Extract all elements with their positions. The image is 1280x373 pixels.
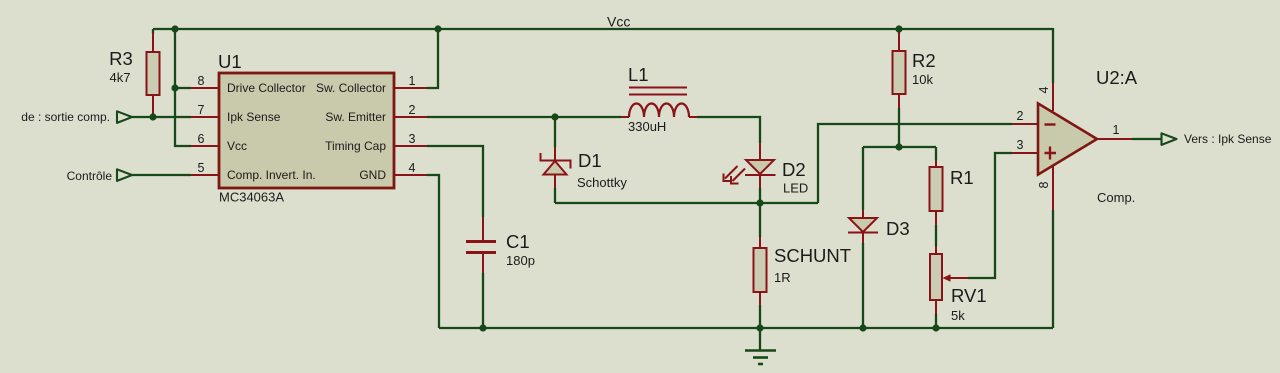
U1 pin 7 stub [191, 103, 219, 117]
svg-text:5: 5 [198, 161, 205, 175]
svg-text:3: 3 [409, 132, 416, 146]
diode D3 [848, 147, 910, 328]
junction R2 bottom node [895, 143, 902, 150]
svg-text:Timing Cap: Timing Cap [325, 139, 386, 153]
svg-text:1: 1 [1113, 123, 1120, 137]
U1 pin 1 stub [394, 74, 427, 88]
U1 pin 5 stub [191, 161, 219, 175]
svg-text:Vers : Ipk Sense: Vers : Ipk Sense [1184, 132, 1272, 146]
wire RV1 wiper to op-amp pin 3 [968, 153, 1012, 278]
junction RV1 / bottom rail [932, 324, 939, 331]
svg-text:Sw. Emitter: Sw. Emitter [325, 110, 386, 124]
wire terminal to pin 7 [132, 116, 191, 118]
svg-text:2: 2 [1017, 109, 1024, 123]
node Vcc label [607, 14, 630, 30]
svg-text:10k: 10k [912, 72, 933, 87]
svg-text:2: 2 [409, 103, 416, 117]
potentiometer RV1 [930, 246, 987, 328]
svg-text:1: 1 [409, 74, 416, 88]
svg-text:Comp.: Comp. [1097, 190, 1135, 205]
svg-text:4: 4 [409, 161, 416, 175]
wire pin2 Sw. Emitter to L1 [427, 116, 621, 118]
wire output to terminal [1132, 138, 1162, 140]
svg-text:330uH: 330uH [628, 119, 666, 134]
op-amp U2:A [1038, 67, 1138, 205]
resistor R3 [109, 29, 159, 117]
wire bottom rail [439, 327, 1053, 329]
svg-text:D1: D1 [578, 150, 602, 171]
svg-text:8: 8 [1037, 181, 1051, 188]
U1 pin 2 stub [394, 103, 427, 117]
U2 pin 8 stub [1037, 165, 1053, 210]
svg-text:C1: C1 [506, 231, 530, 252]
IC U1 MC34063A body [218, 51, 394, 205]
svg-text:Contrôle: Contrôle [67, 169, 113, 183]
U1 pin 6 stub [191, 132, 219, 146]
svg-text:GND: GND [359, 168, 386, 182]
U2 pin 3 stub [1012, 138, 1038, 153]
junction C1 / bottom rail [479, 324, 486, 331]
junction pin1 riser / top rail [434, 25, 441, 32]
U1 pin 4 stub [394, 161, 427, 175]
resistor SCHUNT [754, 203, 852, 328]
svg-text:6: 6 [198, 132, 205, 146]
junction D1 tap [551, 113, 558, 120]
resistor R2 [893, 29, 936, 147]
svg-text:D3: D3 [886, 218, 910, 239]
svg-text:5k: 5k [951, 308, 965, 323]
wire Vcc rail down to op-amp pin 4 [1052, 28, 1054, 83]
terminal Contrôle [67, 169, 132, 183]
wire branch to pin 8 [175, 87, 191, 89]
svg-text:4: 4 [1037, 86, 1051, 93]
terminal de : sortie comp. [21, 110, 132, 124]
svg-text:Vcc: Vcc [607, 14, 630, 30]
svg-text:R1: R1 [950, 167, 974, 188]
svg-text:Sw. Collector: Sw. Collector [316, 81, 386, 95]
diode D2 LED [724, 143, 809, 203]
svg-text:1R: 1R [774, 270, 791, 285]
terminal Vers : Ipk Sense [1162, 132, 1272, 146]
svg-text:U2:A: U2:A [1096, 67, 1138, 88]
svg-text:Comp. Invert. In.: Comp. Invert. In. [227, 168, 316, 182]
junction R2 / top rail [895, 25, 902, 32]
U2 pin 2 stub [1012, 109, 1038, 124]
wire R2 node horizontal [863, 146, 936, 148]
svg-text:7: 7 [198, 103, 205, 117]
svg-text:3: 3 [1017, 138, 1024, 152]
U1 pin 8 stub [191, 74, 219, 88]
svg-text:R2: R2 [912, 50, 936, 71]
junction D2/SCHUNT node [756, 199, 763, 206]
svg-text:de : sortie comp.: de : sortie comp. [21, 110, 110, 124]
U1 pin 3 stub [394, 132, 427, 146]
svg-text:8: 8 [198, 74, 205, 88]
svg-text:L1: L1 [628, 64, 649, 85]
wire terminal Contrôle to pin 5 [132, 174, 191, 176]
wire vertical Vcc branch x175 [175, 29, 191, 146]
svg-text:RV1: RV1 [951, 285, 987, 306]
ground symbol [745, 328, 776, 364]
svg-text:Vcc: Vcc [227, 139, 247, 153]
wire L1 to D2 top corner [697, 117, 760, 143]
svg-text:R3: R3 [109, 48, 133, 69]
svg-text:Drive Collector: Drive Collector [227, 81, 306, 95]
wire pin4 GND down [427, 175, 439, 328]
svg-text:D2: D2 [782, 159, 806, 180]
svg-text:180p: 180p [506, 253, 535, 268]
wire Vcc top rail [153, 28, 1053, 30]
wire riser to op-amp pin 2 [818, 124, 1012, 203]
svg-text:Ipk Sense: Ipk Sense [227, 110, 281, 124]
inductor L1 [621, 64, 697, 134]
junction D3 / bottom rail [859, 324, 866, 331]
junction top rail / x175 [171, 25, 178, 32]
svg-text:U1: U1 [218, 51, 242, 72]
U2 pin 4 stub [1037, 83, 1053, 111]
diode D1 Schottky [541, 117, 628, 203]
svg-text:MC34063A: MC34063A [219, 190, 284, 205]
resistor R1 [930, 147, 974, 246]
svg-text:LED: LED [783, 181, 808, 196]
junction R3 bottom / terminal wire [149, 113, 156, 120]
wire pin1 to Vcc rail [427, 29, 438, 88]
svg-text:4k7: 4k7 [110, 70, 131, 85]
wire D1 bottom to feedback riser [555, 202, 818, 204]
junction pin8 branch [171, 84, 178, 91]
wire op-amp pin 8 to bottom rail [1052, 210, 1054, 328]
U2 pin 1 output stub [1097, 123, 1132, 139]
junction SCHUNT / bottom rail [756, 324, 763, 331]
capacitor C1 [427, 146, 535, 328]
svg-text:Schottky: Schottky [577, 175, 627, 190]
svg-text:SCHUNT: SCHUNT [774, 245, 851, 266]
